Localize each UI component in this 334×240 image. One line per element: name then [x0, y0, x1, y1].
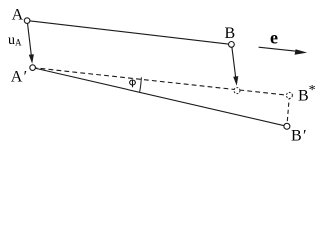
wire line B* to B' (dashed) — [287, 95, 290, 126]
unit vector e arrow — [259, 47, 308, 55]
displacement arrow from B down to translated point — [232, 47, 238, 86]
node B' (open circle) — [284, 123, 290, 129]
svg-text:e: e — [270, 28, 278, 48]
wire line A' to B* (dashed) — [33, 68, 290, 96]
svg-text:B*: B* — [298, 83, 316, 105]
node B translated (dashed circle) — [234, 88, 240, 94]
label phi — [130, 79, 136, 87]
svg-text:A: A — [12, 7, 24, 24]
node A' (open circle) — [30, 65, 36, 71]
wire line A to B (solid) — [27, 21, 231, 45]
angle arc phi between dashed and solid lines — [140, 77, 142, 92]
wire line A' to B' (solid) — [33, 68, 287, 127]
svg-text:B: B — [225, 25, 236, 42]
displacement arrow u_A from A to A' — [28, 23, 34, 64]
svg-text:A ′: A ′ — [11, 68, 27, 85]
node A (open circle) — [24, 18, 30, 24]
node B* (dashed circle) — [286, 92, 292, 98]
svg-text:B ′: B ′ — [291, 128, 307, 145]
svg-text:uA: uA — [8, 33, 22, 48]
node B (open circle) — [229, 42, 235, 48]
